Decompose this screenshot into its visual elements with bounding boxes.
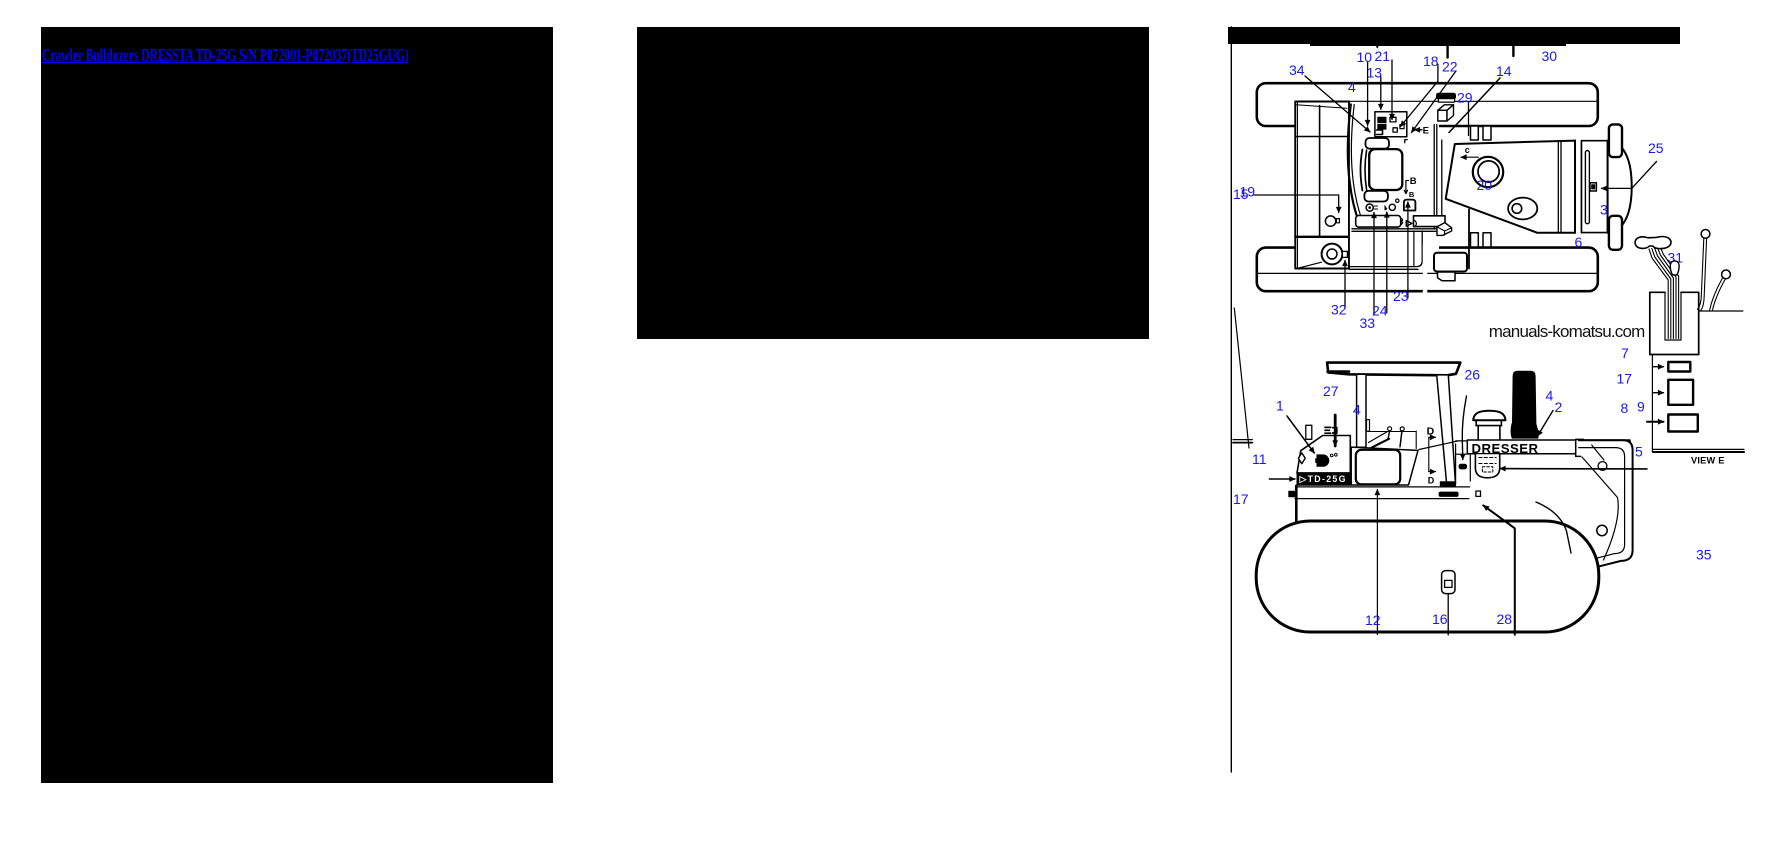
1 callout (1287, 416, 1314, 453)
27 thick arrow (1334, 415, 1337, 446)
callout arrow 18 (1401, 64, 1438, 126)
svg-text:17: 17 (1617, 371, 1633, 387)
callout arrow 22 (1412, 72, 1456, 133)
bottom rule (1653, 448, 1744, 450)
B markers (1404, 181, 1408, 194)
hood (1446, 141, 1575, 233)
arrows to parts (1653, 366, 1663, 368)
svg-text:8: 8 (1621, 400, 1629, 416)
tick marks under bar (1376, 44, 1378, 47)
dash console (1351, 447, 1418, 485)
3d step wedge (1437, 223, 1452, 236)
svg-text:2: 2 (1555, 399, 1563, 415)
svg-text:4: 4 (1348, 79, 1356, 95)
console base line (1699, 310, 1743, 312)
svg-text:B: B (1410, 176, 1417, 187)
svg-text:20: 20 (1477, 177, 1493, 193)
svg-text:29: 29 (1457, 90, 1473, 106)
callout arrow 14 (1449, 78, 1500, 133)
svg-text:6: 6 (1575, 234, 1583, 250)
middle redacted image block (637, 27, 1149, 339)
svg-text:DRESSER: DRESSER (1472, 441, 1539, 456)
TD-25G white text (1299, 474, 1346, 484)
lever bundle (1649, 249, 1668, 339)
2/5 long callout line (1500, 468, 1647, 470)
svg-text:c: c (1465, 145, 1470, 155)
svg-text:E: E (1423, 125, 1429, 136)
top pad (1366, 138, 1390, 149)
fender lines (1297, 486, 1470, 488)
small rect 28 target (1476, 491, 1481, 496)
svg-text:23: 23 (1393, 288, 1409, 304)
bottom track inner line (1258, 272, 1598, 274)
lever ball 31 (1670, 261, 1679, 275)
rear fender arc (1536, 502, 1571, 553)
operator deck (left frame) (1295, 102, 1349, 269)
front post (1357, 374, 1366, 447)
svg-text:34: 34 (1289, 62, 1305, 78)
toolbox on fender (1434, 253, 1467, 272)
svg-text:B: B (1409, 190, 1415, 199)
svg-text:4: 4 (1546, 388, 1554, 404)
track connector rects (1471, 126, 1479, 140)
svg-text:4: 4 (1353, 402, 1361, 418)
left margin diagonal + double line (1234, 308, 1249, 448)
svg-text:5: 5 (1635, 444, 1643, 460)
curved lever arrow near E (1462, 396, 1466, 460)
2 arrow (1538, 411, 1554, 437)
top track (1257, 83, 1598, 126)
right lever 1 (1701, 230, 1710, 239)
black tick on track (1437, 93, 1456, 99)
svg-text:18: 18 (1423, 53, 1439, 69)
black step dash (1439, 492, 1458, 496)
paddle grip (1635, 236, 1671, 248)
15/19 callout (1254, 195, 1339, 213)
svg-text:9: 9 (1637, 399, 1645, 415)
side view labels (1233, 367, 1563, 629)
3d filler box (1438, 105, 1454, 111)
right lever 2 (1722, 270, 1731, 279)
small parts row above armrest (1366, 204, 1373, 211)
svg-text:30: 30 (1542, 48, 1558, 64)
svg-text:22: 22 (1442, 59, 1458, 75)
callout arrow 24 (1386, 212, 1388, 313)
rear panel (1579, 440, 1633, 566)
callout arrow 33 (1373, 213, 1375, 316)
16 clip (1442, 571, 1455, 594)
svg-text:10: 10 (1357, 49, 1373, 65)
top track inner line (1295, 100, 1597, 102)
12 callout (1376, 490, 1378, 635)
E view arrow (1415, 129, 1423, 131)
callout arrow 21 (1391, 60, 1393, 120)
bottom pad (1364, 191, 1388, 202)
svg-text:28: 28 (1497, 611, 1513, 627)
svg-text:19: 19 (1240, 184, 1256, 200)
callout line 29 (1468, 102, 1470, 136)
console box with lever well (1650, 292, 1699, 354)
front frame bulge (1608, 141, 1632, 233)
left redacted image block (41, 27, 553, 783)
callout arrow 13 (1380, 77, 1382, 110)
small lever rect on cowl (1306, 425, 1312, 439)
callout lines top view (1254, 60, 1657, 315)
svg-text:▷TD-25G: ▷TD-25G (1299, 474, 1346, 484)
vertical edge right of rear post (1455, 444, 1457, 485)
fuel cap circle (1325, 216, 1335, 226)
D view markers (1428, 437, 1430, 471)
svg-text:D: D (1428, 475, 1435, 485)
svg-text:17: 17 (1233, 491, 1249, 507)
small sensor square (25 target) (1590, 183, 1596, 191)
track oblong (1256, 521, 1599, 632)
radiator (1574, 141, 1576, 233)
callout arrow 10 (1367, 62, 1369, 126)
DRESSER hood bar (1467, 440, 1630, 454)
TD-25G plate (1297, 473, 1350, 485)
11 callout (1269, 478, 1295, 480)
svg-text:26: 26 (1465, 367, 1481, 383)
armrest bar (1356, 216, 1401, 228)
E mark on cowl (1325, 427, 1337, 433)
air cleaner (1473, 157, 1503, 187)
idler blocks (1609, 124, 1622, 157)
c arrow (1461, 156, 1478, 158)
component cluster box (1375, 112, 1407, 137)
exhaust stack black (1511, 371, 1539, 439)
tiny corner mark under E arrow (1405, 140, 1407, 143)
air cleaner mushroom cap (1473, 411, 1505, 421)
cab curved edge (double) (1348, 105, 1359, 222)
25 callout (1602, 162, 1657, 189)
part rects (1668, 362, 1690, 372)
callout arrow 32 (1344, 261, 1346, 308)
top black redaction bar (1228, 27, 1680, 44)
svg-text:13: 13 (1367, 65, 1383, 81)
seat back cowl (1297, 436, 1350, 474)
svg-text:33: 33 (1360, 315, 1376, 331)
svg-text:14: 14 (1496, 63, 1512, 79)
callout arrow 23 (1407, 202, 1409, 298)
svg-text:35: 35 (1696, 547, 1712, 563)
canopy roof (1327, 363, 1460, 376)
28 callout (1483, 505, 1515, 634)
seat/levers shelf (1367, 420, 1370, 432)
sprocket circles (1322, 244, 1343, 265)
svg-text:D: D (1427, 425, 1435, 437)
hinge rect right of bar (1576, 439, 1584, 456)
hood top line to dresser bar (1419, 441, 1457, 449)
svg-text:16: 16 (1432, 611, 1448, 627)
bottom track (1257, 248, 1598, 292)
seat cushion (1369, 149, 1402, 190)
svg-text:12: 12 (1365, 612, 1381, 628)
svg-text:VIEW E: VIEW E (1691, 456, 1725, 466)
svg-text:7: 7 (1621, 345, 1629, 361)
svg-text:32: 32 (1331, 302, 1347, 318)
inset vertical line (1651, 355, 1653, 453)
callout arrow 34 (1305, 76, 1370, 132)
svg-text:21: 21 (1375, 48, 1391, 64)
cab floor area (1349, 104, 1439, 267)
precleaner cup (1475, 454, 1499, 478)
rear post (1437, 375, 1456, 483)
hyperlink title over left block (42, 45, 409, 66)
page left border line (1230, 27, 1232, 772)
top view labels (1233, 48, 1683, 331)
svg-text:25: 25 (1648, 140, 1664, 156)
exhaust ellipse (1508, 198, 1537, 220)
svg-text:1: 1 (1276, 398, 1284, 414)
svg-text:27: 27 (1323, 383, 1339, 399)
window panel (1356, 450, 1400, 485)
diamond bracket (1298, 453, 1305, 464)
gap break in bottom track (1423, 245, 1428, 293)
svg-text:manuals-komatsu.com: manuals-komatsu.com (1489, 322, 1646, 341)
D logo black (1315, 454, 1329, 466)
svg-text:11: 11 (1252, 451, 1267, 467)
rounded component right (1404, 200, 1416, 211)
svg-text:3: 3 (1600, 202, 1608, 218)
